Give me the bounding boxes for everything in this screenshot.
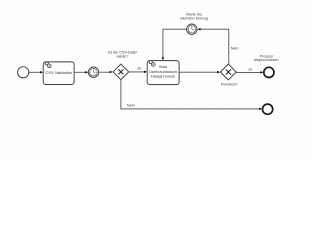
service marker gear (task 2) (149, 60, 156, 67)
svg-text:Finished?: Finished? (221, 83, 237, 87)
svg-text:CSV Validation: CSV Validation (45, 70, 72, 75)
exclusive gateway 2 (220, 64, 236, 80)
canvas background with dot grid (0, 0, 315, 160)
end event 2 (263, 104, 273, 114)
wire timer 1 -> gateway 1 (99, 71, 111, 73)
wire start -> task CSV Validation (29, 71, 41, 73)
svg-text:Hauptprozess: Hauptprozess (151, 74, 175, 79)
svg-text:Nein: Nein (127, 103, 135, 107)
task CSV Validation (43, 62, 74, 85)
wire task 2 -> gateway 2 (179, 71, 218, 73)
task Start Datenaustausch Hauptprozess (147, 61, 179, 85)
wire task 1 -> timer event 1 (74, 71, 86, 73)
wire gateway 2 -> timer 2 (Nein loop) (200, 29, 229, 64)
svg-text:abgeschlossen: abgeschlossen (254, 58, 279, 62)
end event Prozess abgeschlossen (264, 67, 274, 77)
wire gateway 1 -> task 2 (Ja) (129, 71, 145, 73)
svg-text:Nein: Nein (231, 46, 239, 50)
timer intermediate event 1 (88, 67, 98, 77)
start event (18, 67, 29, 78)
wire gateway 1 -> end event 2 (Nein) (121, 80, 260, 109)
wire timer 2 -> task 2 (top) (163, 29, 187, 58)
timer intermediate event 2 (187, 24, 197, 34)
svg-text:nächster Eintrag: nächster Eintrag (180, 16, 208, 20)
svg-text:valide?: valide? (116, 54, 128, 58)
wire gateway 2 -> end event 1 (Ja) (236, 71, 261, 73)
service marker gear (task 1) (45, 62, 52, 69)
exclusive gateway 1 (113, 64, 129, 80)
